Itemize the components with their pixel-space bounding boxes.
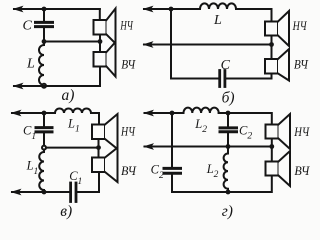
node: speakers junction (b) [269, 42, 274, 47]
inductor L2 series (g) [184, 108, 219, 113]
node: bottom junction (g) [226, 190, 231, 195]
input arrow mid (g) [143, 143, 158, 150]
svg-text:НЧ: НЧ [120, 124, 136, 139]
inductor L (a) [39, 42, 44, 86]
wire: left vertical upper segment (g) [171, 113, 173, 167]
wire: HF+ stub (b) [271, 45, 273, 60]
input arrow top (g) [143, 110, 158, 117]
svg-text:НЧ: НЧ [292, 18, 308, 33]
wire: LF- to mid (a) [99, 35, 101, 42]
input arrow top (a) [13, 6, 28, 13]
loudspeaker LF (a) [94, 9, 116, 44]
capacitor C (a) [36, 9, 53, 42]
node: top junction (v) [42, 111, 47, 116]
wire: LF- to mid (v) [98, 139, 100, 148]
capacitor C2 shunt (g) [220, 113, 237, 147]
loudspeaker HF (v) [92, 148, 118, 182]
loudspeaker LF (v) [92, 114, 118, 149]
svg-text:C: C [23, 19, 33, 34]
capacitor C (b) [220, 71, 225, 87]
svg-text:а): а) [62, 87, 75, 104]
node: bottom junction (v) [42, 190, 47, 195]
capacitor C1 series (v) [71, 183, 76, 202]
inductor L (b) [200, 3, 236, 9]
wire: top rail right segment (g) [219, 113, 272, 125]
wire: left vertical lower + bottom rail (g) [172, 175, 272, 192]
wire: bottom loop right segment (b) [226, 74, 272, 79]
node: C2 tap junction (g) [226, 111, 231, 116]
wire: drop to LF speaker (a) [99, 9, 101, 20]
wire: top rail left segment (g) [156, 112, 184, 114]
capacitor C2 series (g) [164, 168, 181, 173]
svg-text:НЧ: НЧ [293, 124, 310, 139]
svg-text:L: L [213, 13, 222, 28]
node: mid terminal circle (v) [42, 146, 46, 150]
wire: top rail right segment (b) [236, 9, 272, 22]
capacitor C1 shunt (v) [36, 113, 52, 146]
svg-text:б): б) [222, 89, 235, 106]
wire: top rail left segment (v) [23, 112, 55, 114]
loudspeaker LF (g) [266, 114, 291, 149]
wire: LF- to mid (g) [271, 139, 273, 147]
svg-text:L: L [26, 57, 35, 72]
loudspeaker HF (b) [265, 49, 289, 81]
node: bottom terminal circle (a) [42, 84, 46, 88]
svg-text:ВЧ: ВЧ [294, 163, 310, 178]
wire: mid rail (a) [44, 41, 100, 43]
node: mid junction right (a) [98, 39, 103, 44]
node: top junction (a) [42, 7, 47, 12]
wire: mid rail (v) [46, 147, 99, 149]
wire: bottom rail right segment (v) [77, 172, 99, 192]
wire: mid to HF+ (v) [98, 148, 100, 158]
svg-text:ВЧ: ВЧ [294, 57, 309, 72]
loudspeaker LF (b) [265, 11, 289, 46]
inductor L1 series (v) [55, 109, 91, 114]
wire: bottom rail left segment (v) [23, 191, 69, 193]
svg-text:в): в) [60, 203, 72, 220]
node: speakers junction (v) [96, 145, 101, 150]
node: shunt junction mid (g) [226, 144, 231, 149]
svg-text:ВЧ: ВЧ [121, 163, 137, 178]
wire: top rail right segment (v) [91, 113, 99, 125]
input arrow bottom (v) [11, 189, 26, 196]
loudspeaker HF (g) [266, 151, 291, 186]
wire: LF- stub (b) [271, 36, 273, 45]
svg-text:НЧ: НЧ [120, 18, 134, 33]
wire: top rail left segment (b) [155, 8, 200, 10]
wire: top rail (a) [25, 8, 100, 10]
input arrow bottom (a) [13, 83, 28, 90]
loudspeaker HF (a) [94, 42, 116, 77]
wire: mid to HF+ (a) [99, 42, 101, 53]
svg-text:ВЧ: ВЧ [121, 56, 136, 71]
svg-text:г): г) [222, 203, 233, 220]
wire: mid to HF+ (g) [271, 147, 273, 162]
node: speakers junction (g) [269, 144, 274, 149]
node: top junction (b) [169, 7, 174, 12]
node: top junction (g) [170, 111, 175, 116]
inductor L2 shunt (g) [224, 147, 228, 193]
svg-text:C: C [221, 58, 231, 73]
wire: mid rail (g) [156, 146, 272, 148]
wire: mid rail (b) [155, 44, 272, 46]
input arrow top (b) [143, 6, 158, 13]
wire: left vertical branch (b) [171, 9, 219, 79]
input arrow mid (b) [143, 41, 158, 48]
node: mid junction left (a) [42, 39, 47, 44]
input arrow top (v) [11, 110, 26, 117]
inductor L1 shunt (v) [39, 150, 44, 192]
wire: bottom rail (a) [25, 67, 100, 87]
